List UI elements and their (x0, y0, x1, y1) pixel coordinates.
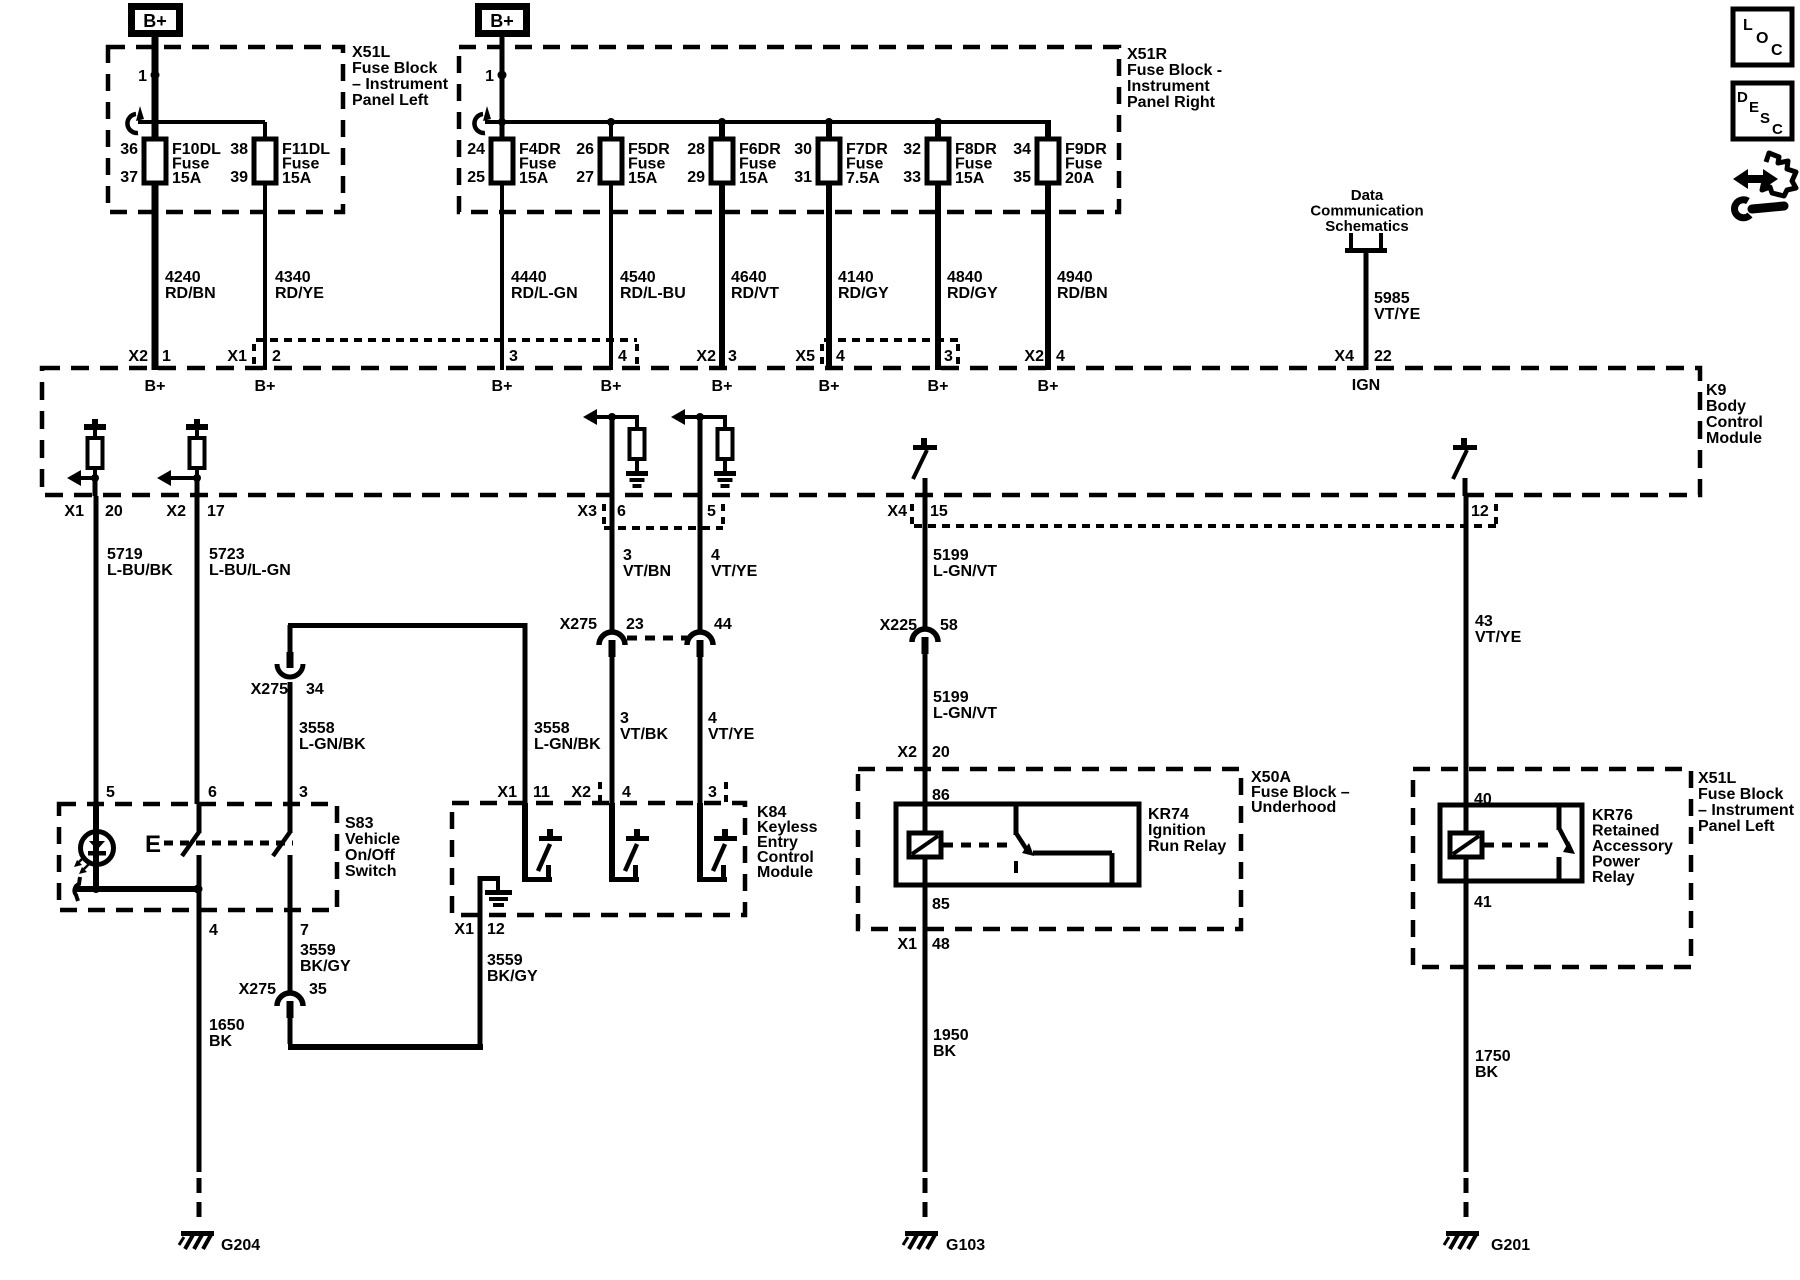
svg-text:34: 34 (1013, 141, 1031, 158)
svg-text:Fuse Block: Fuse Block (352, 60, 437, 77)
svg-text:5723: 5723 (209, 546, 245, 563)
connector X3 dotted group box (604, 526, 723, 530)
svg-text:12: 12 (1471, 503, 1489, 520)
svg-text:B+: B+ (928, 378, 949, 395)
wire circuit 43 VT/YE BCM pin12 to KR76 coil pin 40 (1464, 496, 1469, 833)
B+ supply box 1 (132, 7, 180, 34)
svg-text:25: 25 (467, 169, 485, 186)
svg-text:On/Off: On/Off (345, 847, 395, 864)
svg-text:4340: 4340 (275, 269, 311, 286)
svg-text:Underhood: Underhood (1251, 799, 1336, 816)
svg-text:24: 24 (467, 141, 485, 158)
svg-text:3: 3 (728, 348, 737, 365)
svg-text:1650: 1650 (209, 1017, 245, 1034)
svg-text:Fuse Block -: Fuse Block - (1127, 62, 1222, 79)
wire circuit 5199 L-GN/VT BCM X4-15 to connector X225-58 (923, 496, 928, 624)
svg-text:Panel Right: Panel Right (1127, 94, 1216, 111)
svg-text:VT/BK: VT/BK (620, 726, 668, 743)
svg-text:4240: 4240 (165, 269, 201, 286)
fuse block X51L box (108, 47, 343, 212)
body control module K9 box (42, 368, 1700, 495)
svg-text:3: 3 (299, 784, 308, 801)
wire circuit 4 VT/YE BCM pin5 to connector X275-44 (698, 496, 703, 627)
svg-text:L-BU/L-GN: L-BU/L-GN (209, 562, 291, 579)
connector X5 dotted group line (824, 338, 958, 342)
svg-text:3: 3 (509, 348, 518, 365)
svg-text:86: 86 (932, 787, 950, 804)
svg-text:11: 11 (533, 784, 550, 801)
svg-text:B+: B+ (255, 378, 276, 395)
svg-text:C: C (1772, 121, 1783, 138)
svg-text:5: 5 (707, 503, 716, 520)
wire circuit 5723 L-BU/L-GN BCM X2-17 to S83 pin 6 (195, 496, 200, 804)
svg-text:RD/VT: RD/VT (731, 285, 779, 302)
svg-text:X51L: X51L (352, 44, 390, 61)
svg-text:L-GN/BK: L-GN/BK (534, 736, 601, 753)
svg-text:58: 58 (940, 617, 958, 634)
K84 internal switch pin X2-4 (609, 803, 615, 882)
svg-text:BK: BK (1475, 1064, 1499, 1081)
wire circuit 1950 BK KR74 to ground (923, 857, 928, 1172)
wire circuit 3559 BK/GY from S83 pin 7 (288, 911, 293, 990)
svg-text:Data: Data (1351, 187, 1384, 204)
svg-text:Instrument: Instrument (1127, 78, 1210, 95)
wire fuse F8DR to BCM pin 3, circuit 4840 RD/GY (935, 183, 941, 370)
svg-text:36: 36 (120, 141, 138, 158)
svg-text:3558: 3558 (299, 720, 335, 737)
svg-text:Vehicle: Vehicle (345, 831, 400, 848)
svg-text:X1: X1 (64, 503, 84, 520)
svg-text:1: 1 (485, 68, 494, 85)
BCM internal pull-up resistor on pin X1-20 (84, 424, 106, 430)
dashed link X275 23-44 (627, 636, 687, 641)
svg-text:15: 15 (930, 503, 948, 520)
svg-text:Switch: Switch (345, 863, 397, 880)
wire B+1 feed to fuse F10DL (152, 37, 159, 138)
svg-text:20: 20 (932, 744, 950, 761)
svg-text:BK: BK (209, 1033, 233, 1050)
svg-text:48: 48 (932, 936, 950, 953)
svg-text:E: E (1749, 99, 1759, 116)
wire connector X275-34 to S83 pin 3 (288, 682, 293, 804)
svg-text:G204: G204 (221, 1237, 260, 1254)
KR76 switch (1557, 805, 1562, 830)
svg-text:38: 38 (230, 141, 248, 158)
svg-text:5199: 5199 (933, 689, 969, 706)
svg-text:B+: B+ (145, 378, 166, 395)
bus hook X51R (474, 114, 485, 133)
svg-text:Accessory: Accessory (1592, 838, 1673, 855)
ground G201 (1446, 1231, 1479, 1236)
fuse F4DR 15A (491, 139, 513, 183)
svg-text:7: 7 (300, 922, 309, 939)
svg-text:7.5A: 7.5A (846, 170, 880, 187)
svg-text:Communication: Communication (1310, 203, 1423, 220)
BCM internal resistor to ground at pin X3-6 (612, 415, 639, 419)
svg-text:BK/GY: BK/GY (487, 968, 538, 985)
keyless entry control module K84 box (452, 803, 745, 915)
KR76 coil (1450, 833, 1482, 857)
svg-text:35: 35 (309, 981, 327, 998)
svg-text:34: 34 (306, 681, 324, 698)
svg-text:VT/YE: VT/YE (1374, 306, 1421, 323)
fuse block X50A underhood box (858, 769, 1241, 929)
wire circuit 1650 BK S83 pin 4 to ground (197, 911, 202, 1172)
svg-text:X3: X3 (577, 503, 597, 520)
svg-text:15A: 15A (282, 170, 312, 187)
fuse bus X51L (138, 120, 265, 124)
svg-text:3559: 3559 (487, 952, 523, 969)
svg-text:B+: B+ (1038, 378, 1059, 395)
svg-text:X4: X4 (1334, 348, 1354, 365)
svg-text:4140: 4140 (838, 269, 874, 286)
svg-text:26: 26 (576, 141, 594, 158)
fuse bus X51R (485, 120, 1048, 124)
wire fuse F7DR to BCM pin X5-4, circuit 4140 RD/GY (826, 183, 832, 370)
wire circuit 4 VT/YE connector to K84 pin 3 (698, 644, 703, 882)
svg-text:BK: BK (933, 1043, 957, 1060)
svg-text:E: E (145, 831, 161, 858)
svg-text:4: 4 (711, 547, 720, 564)
fuse F7DR 7.5A (818, 139, 840, 183)
svg-text:29: 29 (687, 169, 705, 186)
connector X4 dotted group line (914, 524, 1496, 528)
svg-text:1950: 1950 (933, 1027, 969, 1044)
svg-text:4: 4 (622, 784, 631, 801)
S83 internal joint wire lamp to pole 1 (74, 877, 80, 901)
svg-text:33: 33 (903, 169, 921, 186)
svg-text:X275: X275 (560, 616, 597, 633)
BCM internal arrow pin X1-20 (67, 470, 81, 486)
svg-text:K9: K9 (1706, 382, 1727, 399)
wire circuit 5199 L-GN/VT connector to KR74 coil pin 86 (923, 641, 928, 833)
svg-text:15A: 15A (519, 170, 549, 187)
S83 mechanical dashed link (164, 841, 293, 846)
svg-text:3: 3 (620, 710, 629, 727)
svg-text:Panel Left: Panel Left (352, 92, 429, 109)
BCM internal node pin 5 with arrow (671, 409, 685, 425)
fuse F8DR 15A (927, 139, 949, 183)
svg-text:23: 23 (626, 616, 644, 633)
svg-text:85: 85 (932, 896, 950, 913)
indicator lamp in S83 (81, 832, 114, 865)
S83 switch pole 2 (288, 804, 293, 833)
svg-text:X1: X1 (227, 348, 247, 365)
wire bus to fuse F6DR (719, 122, 725, 139)
svg-text:B+: B+ (819, 378, 840, 395)
svg-text:15A: 15A (955, 170, 985, 187)
svg-text:Panel Left: Panel Left (1698, 818, 1775, 835)
svg-text:RD/GY: RD/GY (947, 285, 998, 302)
svg-text:VT/YE: VT/YE (1475, 629, 1522, 646)
svg-text:X5: X5 (795, 348, 815, 365)
svg-text:L-GN/VT: L-GN/VT (933, 705, 997, 722)
fuse block X51R box (459, 47, 1119, 212)
svg-text:6: 6 (617, 503, 626, 520)
KR74 coil (909, 833, 941, 857)
svg-text:X2: X2 (128, 348, 148, 365)
BCM internal arrow pin X2-17 (157, 470, 171, 486)
K84 internal switch pin 3 (697, 803, 703, 882)
wire fuse F10DL to BCM pin X2-1, circuit 4240 RD/BN (152, 183, 159, 370)
svg-text:5: 5 (106, 784, 115, 801)
svg-text:KR76: KR76 (1592, 807, 1633, 824)
pin 1 X51R (498, 71, 507, 80)
ignition run relay KR74 body (896, 804, 1139, 885)
svg-text:35: 35 (1013, 169, 1031, 186)
wire B+2 feed to fuse F4DR (500, 37, 505, 139)
wrench icon (1752, 206, 1784, 209)
svg-text:4: 4 (708, 710, 717, 727)
fuse F6DR 15A (711, 139, 733, 183)
svg-text:S83: S83 (345, 815, 374, 832)
vehicle on/off switch S83 box (59, 804, 337, 910)
fuse F11DL 15A (254, 139, 276, 183)
svg-text:VT/YE: VT/YE (708, 726, 755, 743)
svg-text:RD/BN: RD/BN (1057, 285, 1108, 302)
svg-text:17: 17 (207, 503, 225, 520)
svg-text:1: 1 (138, 68, 147, 85)
LOC navigation icon (1733, 9, 1792, 65)
svg-text:O: O (1756, 30, 1768, 47)
svg-text:15A: 15A (628, 170, 658, 187)
svg-text:4940: 4940 (1057, 269, 1093, 286)
K84 internal ground (478, 876, 483, 915)
DESC navigation icon (1733, 83, 1792, 139)
svg-text:D: D (1737, 89, 1748, 106)
svg-text:15A: 15A (739, 170, 769, 187)
inline connector X275-44 (698, 625, 703, 633)
wire circuit 3558 L-GN/BK loop (288, 623, 525, 628)
ground G204 (181, 1231, 214, 1236)
bus hook X51L (127, 114, 138, 133)
svg-text:4: 4 (836, 348, 845, 365)
svg-text:5719: 5719 (107, 546, 143, 563)
svg-text:4840: 4840 (947, 269, 983, 286)
svg-text:X275: X275 (239, 981, 276, 998)
svg-text:X51R: X51R (1127, 46, 1167, 63)
pin 1 X51L (151, 71, 160, 80)
svg-text:22: 22 (1374, 348, 1392, 365)
svg-text:X1: X1 (897, 936, 917, 953)
svg-text:4640: 4640 (731, 269, 767, 286)
svg-text:37: 37 (120, 169, 138, 186)
B+ supply box 2 (479, 7, 527, 34)
svg-text:Module: Module (757, 864, 813, 881)
svg-text:Relay: Relay (1592, 869, 1635, 886)
BCM internal pull-up resistor on pin X2-17 (186, 424, 208, 430)
svg-text:X2: X2 (696, 348, 716, 365)
wire bus to fuse F7DR (826, 122, 832, 139)
svg-text:KR74: KR74 (1148, 806, 1189, 823)
svg-text:X2: X2 (166, 503, 186, 520)
svg-text:L-GN/BK: L-GN/BK (299, 736, 366, 753)
svg-text:X2: X2 (897, 744, 917, 761)
svg-text:Fuse Block: Fuse Block (1698, 786, 1783, 803)
svg-text:B+: B+ (490, 11, 514, 31)
schematic navigation arrow icon (1746, 175, 1766, 183)
svg-text:VT/YE: VT/YE (711, 563, 758, 580)
bus corner to fuse F9DR (1045, 120, 1051, 139)
wire fuse F11DL to BCM pin X1-2, circuit 4340 RD/YE (263, 183, 267, 370)
wire fuse F9DR to BCM pin X2-4, circuit 4940 RD/BN (1045, 183, 1051, 370)
retained accessory power relay KR76 body (1440, 805, 1582, 881)
wire circuit 3 VT/BK connector to K84 X2-4 (610, 644, 615, 882)
wire circuit 3 VT/BN BCM X3-6 to connector X275-23 (610, 496, 615, 627)
svg-text:31: 31 (794, 169, 812, 186)
svg-text:– Instrument: – Instrument (1698, 802, 1795, 819)
svg-text:X1: X1 (497, 784, 517, 801)
svg-text:X51L: X51L (1698, 770, 1736, 787)
svg-text:27: 27 (576, 169, 594, 186)
ground G103 (905, 1231, 938, 1236)
svg-text:G201: G201 (1491, 1237, 1530, 1254)
wire circuit 3559 BK/GY elbow to K84 X1-12 (288, 1005, 293, 1044)
svg-text:VT/BN: VT/BN (623, 563, 671, 580)
svg-text:X2: X2 (571, 784, 591, 801)
BCM internal driver switch pin X4-15 (923, 478, 928, 496)
wire fuse F4DR to BCM pin 3, circuit 4440 RD/L-GN (500, 183, 504, 370)
svg-text:RD/YE: RD/YE (275, 285, 324, 302)
svg-text:4: 4 (209, 922, 218, 939)
svg-text:4540: 4540 (620, 269, 656, 286)
inline connector X275-34 (287, 652, 294, 668)
svg-text:BK/GY: BK/GY (300, 958, 351, 975)
wire bus to fuse F11DL (263, 122, 267, 139)
svg-text:Control: Control (1706, 414, 1763, 431)
svg-text:2: 2 (272, 348, 281, 365)
svg-text:30: 30 (794, 141, 812, 158)
svg-text:20A: 20A (1065, 170, 1095, 187)
svg-text:5199: 5199 (933, 547, 969, 564)
svg-text:B+: B+ (712, 378, 733, 395)
fuse block X51L instrument panel left box (1413, 769, 1691, 967)
wire circuit 1750 BK KR76 to ground (1464, 857, 1469, 1172)
svg-text:1750: 1750 (1475, 1048, 1511, 1065)
fuse F5DR 15A (600, 139, 622, 183)
svg-text:6: 6 (208, 784, 217, 801)
svg-text:4: 4 (618, 348, 627, 365)
svg-text:RD/GY: RD/GY (838, 285, 889, 302)
svg-text:32: 32 (903, 141, 921, 158)
svg-text:X1: X1 (454, 921, 474, 938)
svg-text:S: S (1760, 110, 1770, 127)
svg-text:G103: G103 (946, 1237, 985, 1254)
svg-text:L: L (1743, 17, 1753, 34)
wire circuit 3558 L-GN/BK to K84 X1-11 (523, 623, 528, 803)
svg-text:X275: X275 (251, 681, 288, 698)
svg-text:3558: 3558 (534, 720, 570, 737)
BCM internal node pin X3-6 with arrow (583, 409, 597, 425)
svg-text:3559: 3559 (300, 942, 336, 959)
svg-text:3: 3 (623, 547, 632, 564)
svg-text:44: 44 (714, 616, 732, 633)
svg-text:15A: 15A (172, 170, 202, 187)
connector X1 dotted group line (256, 338, 637, 342)
svg-text:B+: B+ (601, 378, 622, 395)
svg-text:12: 12 (487, 921, 505, 938)
wire bus to fuse F5DR (609, 122, 613, 139)
svg-text:20: 20 (105, 503, 123, 520)
wire bus to fuse F8DR (935, 122, 941, 139)
S83 switch pole 1 (197, 804, 202, 833)
svg-text:C: C (1771, 42, 1783, 59)
K84 internal switch pin X1-11 (522, 803, 528, 882)
KR76 coil-switch dashed link (1484, 843, 1555, 848)
wire circuit 5719 L-BU/BK BCM X1-20 to S83 pin 5 (94, 496, 99, 832)
wire fuse F5DR to BCM pin 4, circuit 4540 RD/L-BU (609, 183, 613, 370)
junction dots on X51R bus (607, 118, 615, 126)
svg-text:B+: B+ (143, 11, 167, 31)
svg-text:IGN: IGN (1352, 377, 1380, 394)
svg-text:4: 4 (1056, 348, 1065, 365)
KR74 coil-switch dashed link (943, 843, 1014, 848)
BCM internal resistor to ground at pin 5 (700, 415, 727, 419)
svg-text:RD/BN: RD/BN (165, 285, 216, 302)
svg-text:5985: 5985 (1374, 290, 1410, 307)
svg-text:39: 39 (230, 169, 248, 186)
svg-text:– Instrument: – Instrument (352, 76, 449, 93)
svg-text:X2: X2 (1024, 348, 1044, 365)
svg-text:3: 3 (708, 784, 717, 801)
svg-text:X225: X225 (880, 617, 917, 634)
svg-text:L-BU/BK: L-BU/BK (107, 562, 173, 579)
wire circuit 5985 VT/YE to BCM pin X4-22 (1364, 251, 1369, 370)
svg-text:Body: Body (1706, 398, 1746, 415)
fuse F9DR 20A (1037, 139, 1059, 183)
svg-text:Schematics: Schematics (1325, 218, 1408, 235)
fuse F10DL 15A (144, 139, 166, 183)
svg-text:Retained: Retained (1592, 823, 1660, 840)
svg-text:X4: X4 (887, 503, 907, 520)
svg-text:Module: Module (1706, 430, 1762, 447)
svg-text:B+: B+ (492, 378, 513, 395)
svg-text:Power: Power (1592, 854, 1640, 871)
svg-text:41: 41 (1474, 894, 1492, 911)
KR74 switch (1014, 804, 1019, 835)
lamp light arrows (78, 857, 84, 863)
svg-text:4440: 4440 (511, 269, 547, 286)
BCM internal driver switch pin 12 (1463, 478, 1468, 496)
svg-text:Run Relay: Run Relay (1148, 838, 1226, 855)
svg-text:L-GN/VT: L-GN/VT (933, 563, 997, 580)
svg-text:3: 3 (944, 348, 953, 365)
svg-text:Ignition: Ignition (1148, 822, 1206, 839)
svg-text:43: 43 (1475, 613, 1493, 630)
wire fuse F6DR to BCM pin X2-3, circuit 4640 RD/VT (719, 183, 725, 370)
svg-text:RD/L-BU: RD/L-BU (620, 285, 686, 302)
svg-text:RD/L-GN: RD/L-GN (511, 285, 578, 302)
svg-text:1: 1 (162, 348, 171, 365)
svg-text:28: 28 (687, 141, 705, 158)
